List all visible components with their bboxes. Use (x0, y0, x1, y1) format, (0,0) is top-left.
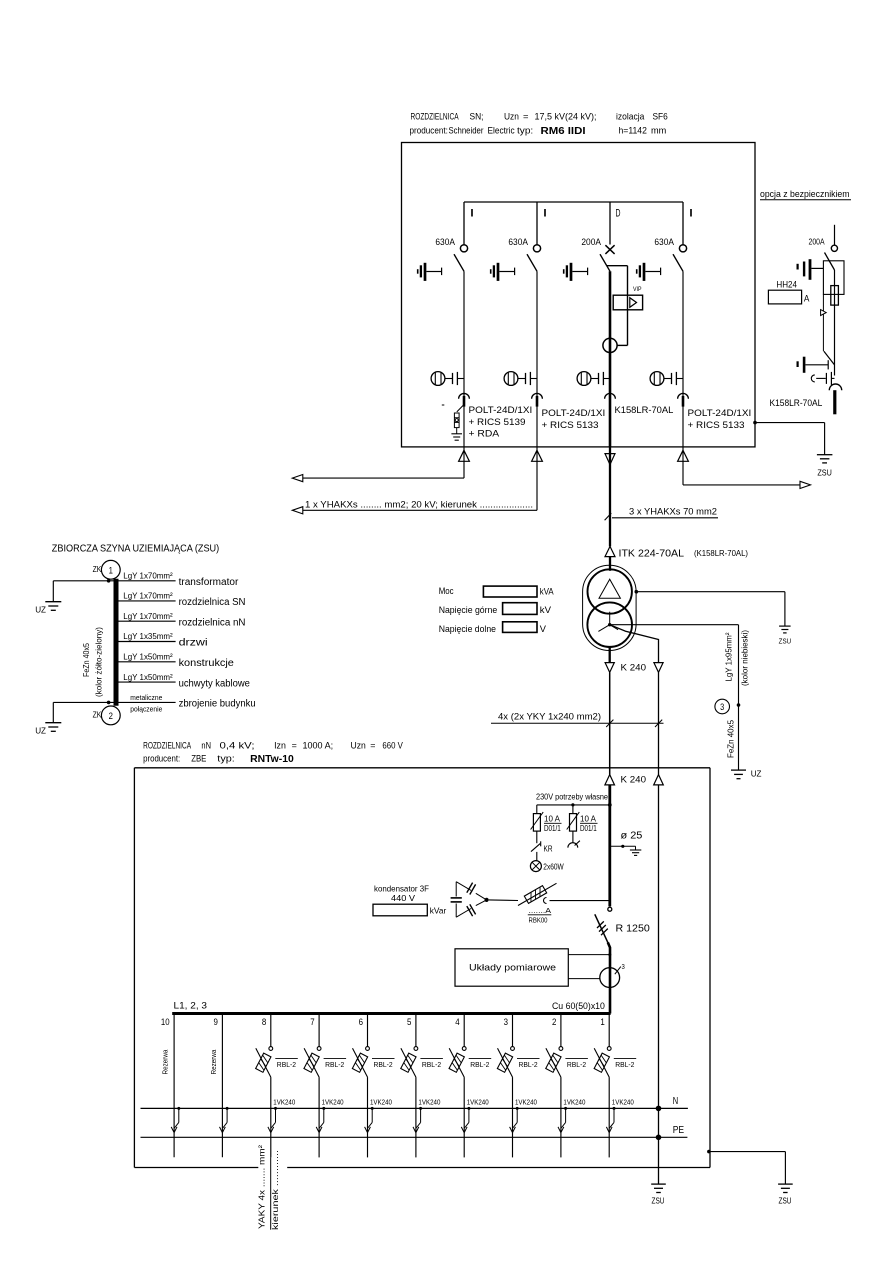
load-break switch blade feeder 1 (454, 254, 464, 271)
svg-text:.......A: .......A (529, 908, 552, 915)
svg-text:L1, 2, 3: L1, 2, 3 (174, 1001, 208, 1012)
svg-text:=: = (292, 740, 298, 751)
svg-text:0,4 kV;: 0,4 kV; (220, 740, 255, 751)
svg-text:ITK 224-70AL: ITK 224-70AL (619, 549, 685, 560)
cable arrowhead field 1 (606, 1127, 612, 1133)
svg-text:Uzn: Uzn (351, 740, 366, 751)
svg-text:(K158LR-70AL): (K158LR-70AL) (694, 549, 748, 558)
ground ZSU nN enclosure (778, 1184, 793, 1205)
wire SN feeder 2 drop (536, 202, 538, 245)
ground ZSU at transformer (779, 626, 792, 645)
svg-text:LgY 1x70mm²: LgY 1x70mm² (123, 571, 173, 581)
label feeder 3 cable head type (615, 405, 674, 415)
svg-text:630A: 630A (435, 237, 455, 248)
svg-text:+ RICS 5133: + RICS 5133 (688, 420, 745, 430)
svg-text:LgY 1x50mm²: LgY 1x50mm² (123, 652, 173, 662)
cable arrowhead field 4 (461, 1127, 467, 1133)
svg-text:LgY 1x50mm²: LgY 1x50mm² (123, 672, 173, 682)
neutral tap field 3 (513, 1107, 519, 1128)
cable stub feeder 2 (536, 396, 539, 407)
wire capacitor to fuse (489, 899, 518, 902)
svg-text:200A: 200A (809, 236, 825, 246)
ground UZ bottom-left (35, 723, 61, 736)
svg-text:kondensator 3F: kondensator 3F (374, 884, 429, 894)
svg-text:LgY 1x70mm²: LgY 1x70mm² (123, 591, 173, 601)
svg-text:3: 3 (622, 962, 625, 971)
wire field 8 cable going out (270, 1157, 272, 1229)
label option rating 200A (809, 236, 825, 246)
svg-text:ZSU: ZSU (817, 469, 832, 478)
svg-text:ZK: ZK (93, 711, 102, 720)
svg-text:UZ: UZ (751, 770, 762, 779)
wire feeder 3 vertical (609, 271, 612, 447)
svg-text:mm: mm (651, 126, 666, 137)
fuse-switch RBL-2 field 2 (546, 1015, 588, 1077)
load-break switch blade feeder 3 (600, 254, 610, 271)
cable arrowhead field 2 (558, 1127, 564, 1133)
svg-text:RBL-2: RBL-2 (567, 1060, 586, 1069)
cable stub feeder 1 (463, 396, 466, 407)
svg-text:(kolor niebieski): (kolor niebieski) (740, 630, 750, 686)
svg-text:metaliczne: metaliczne (130, 693, 162, 702)
fuse-switch RBL-2 field 7 (304, 1015, 346, 1077)
svg-text:630A: 630A (654, 237, 674, 248)
svg-text:=: = (370, 740, 376, 751)
ZSU branch 5 to konstrukcje (119, 652, 234, 670)
svg-text:4: 4 (455, 1017, 460, 1028)
svg-text:1: 1 (109, 565, 113, 576)
svg-text:440 V: 440 V (391, 893, 415, 903)
svg-text:ZK: ZK (93, 565, 102, 574)
ground ZSU option (817, 455, 833, 478)
terminal ZK 1 (93, 560, 121, 579)
svg-text:4x (2x YKY 1x240 mm2): 4x (2x YKY 1x240 mm2) (498, 711, 601, 721)
svg-text:Uzn: Uzn (504, 112, 519, 123)
label 1VK240 field 7 (322, 1099, 344, 1106)
transformer T1 HV winding (delta) (588, 569, 632, 613)
label 1VK240 field 3 (515, 1099, 537, 1106)
fuse F1 D01 aux (531, 805, 562, 843)
svg-text:1VK240: 1VK240 (563, 1099, 585, 1106)
earthing switch feeder 3 (564, 263, 588, 281)
voltage indicator lamp feeder 3 (577, 372, 598, 386)
svg-text:h=1142: h=1142 (619, 126, 647, 137)
ZSU branch 1 to transformator (119, 571, 240, 589)
svg-text:660 V: 660 V (382, 740, 403, 751)
svg-text:1 x YHAKXs ........ mm2; 20: 1 x YHAKXs ........ mm2; 20 kV; kierunek… (305, 500, 533, 510)
wire field 8 outgoing (270, 1077, 272, 1157)
wire SN feeder 3 drop (609, 202, 611, 245)
switch pivot contact feeder 4 (679, 245, 686, 252)
label feeder 4 'I' (689, 208, 694, 220)
label feeder 3 rating 200A (581, 237, 601, 248)
ground UZ right (731, 770, 762, 779)
svg-text:FeZn 40x5: FeZn 40x5 (81, 643, 91, 677)
svg-text:Electric: Electric (488, 126, 515, 137)
wire transformer tank earthing to ZSU (635, 590, 785, 626)
label Rezerwa field 9 (209, 1049, 218, 1075)
cable mark K240 up-triangles at nN box (605, 775, 663, 785)
label feeder 2 'I' (543, 208, 548, 220)
label field number 9 (214, 1017, 218, 1028)
label field number 1 (600, 1017, 604, 1028)
arrowhead feeder 1 (292, 475, 303, 482)
capacitor bank kVar box (373, 904, 446, 916)
svg-text:K 240: K 240 (621, 663, 647, 674)
wire main nN incomer thick (608, 785, 611, 906)
cable count tick incoming feeder (605, 513, 612, 520)
label 1VK240 field 8 (273, 1099, 295, 1106)
fixed contact hook RBK00 (544, 898, 547, 904)
svg-text:producent:: producent: (143, 753, 180, 764)
svg-text:kVar: kVar (430, 905, 447, 915)
wire field 5 outgoing (415, 1077, 417, 1157)
SN switchgear enclosure box (402, 143, 756, 447)
fuse carriage box option (823, 261, 844, 295)
svg-text:R 1250: R 1250 (616, 923, 651, 934)
wire transformer LV down (609, 646, 611, 663)
fuse-switch RBL-2 field 4 (449, 1015, 491, 1077)
ground UZ top-left (35, 602, 61, 615)
socket outlet symbol (568, 841, 580, 848)
terminal ZK 2 (93, 706, 121, 725)
wire feeder 2 vertical (536, 271, 538, 447)
cable termination arc feeder 2 (532, 393, 543, 398)
wire field 3 outgoing (512, 1077, 514, 1157)
wire field 2 outgoing (560, 1077, 562, 1157)
svg-text:Rezerwa: Rezerwa (161, 1049, 170, 1075)
label field number 10 (161, 1017, 170, 1028)
PE busbar (141, 1125, 688, 1138)
svg-text:Napięcie dolne: Napięcie dolne (439, 623, 496, 634)
svg-text:K 240: K 240 (621, 775, 647, 786)
svg-text:UZ: UZ (35, 726, 46, 735)
ZSU branch 4 to drzwi (119, 631, 208, 649)
label kolor niebieski vertical (740, 630, 750, 686)
fuse F2 D01 aux (567, 805, 598, 843)
neutral tap field 5 (416, 1107, 422, 1128)
svg-text:RBL-2: RBL-2 (325, 1060, 344, 1069)
label feeder 1 rating 630A (435, 237, 455, 248)
svg-text:(kolor żółto-zielony): (kolor żółto-zielony) (94, 627, 104, 697)
label field number 6 (359, 1017, 363, 1028)
wire nN neutral riser (658, 785, 660, 1184)
cable termination arc option (829, 384, 841, 390)
node 3 junction dot (737, 703, 741, 707)
interlock marker triangle (821, 310, 827, 316)
cable arrowhead field 7 (316, 1127, 322, 1133)
label 1VK240 field 1 (612, 1099, 634, 1106)
svg-text:HH24: HH24 (776, 280, 797, 290)
svg-text:YAKY 4x ....... mm²: YAKY 4x ....... mm² (257, 1145, 267, 1229)
label field number 7 (310, 1017, 314, 1028)
label Rezerwa field 10 (161, 1049, 170, 1075)
measuring circuits box (455, 949, 568, 986)
svg-text:RBL-2: RBL-2 (470, 1060, 489, 1069)
svg-text:1: 1 (600, 1017, 604, 1028)
label feeder 4 rating 630A (654, 237, 674, 248)
svg-text:konstrukcje: konstrukcje (179, 658, 234, 669)
svg-text:230V potrzeby własne: 230V potrzeby własne (536, 792, 608, 802)
VIP protection relay feeder 3 (607, 266, 643, 346)
wire feeder 1 outgoing arrow (296, 447, 464, 478)
svg-text:7: 7 (310, 1017, 314, 1028)
wire transformer neutral tap (610, 625, 659, 663)
svg-text:Rezerwa: Rezerwa (209, 1049, 218, 1075)
cable termination arc feeder 1 (459, 393, 470, 398)
switch-disconnector R 1250 (595, 907, 612, 1013)
svg-text:transformator: transformator (179, 577, 239, 588)
wire feeder 4 vertical (682, 271, 684, 447)
label FeZn 40x5 busbar vertical (81, 643, 91, 677)
svg-text:2: 2 (552, 1017, 556, 1028)
label feeder 1 'I' (470, 208, 475, 220)
cable arrowhead field 9 (220, 1127, 226, 1133)
svg-text:POLT-24D/1XI: POLT-24D/1XI (469, 405, 533, 415)
earthing pipe fi25 (610, 831, 643, 856)
svg-text:2: 2 (109, 711, 113, 722)
label ITK 224-70AL (619, 549, 749, 560)
svg-text:V: V (540, 623, 547, 634)
fuse HH24 option (831, 286, 839, 306)
wire nN box to ZSU ground (707, 1150, 785, 1184)
neutral tap field 10 (174, 1107, 180, 1128)
svg-text:ROZDZIELNICA: ROZDZIELNICA (411, 112, 460, 123)
node marker circle 3 (715, 699, 730, 714)
earthing switch option lower (798, 351, 835, 373)
fuse-switch RBL-2 field 1 (594, 1015, 636, 1077)
svg-text:N: N (673, 1096, 678, 1107)
svg-text:+ RICS 5133: + RICS 5133 (542, 420, 599, 430)
ZSU branch 2 to rozdzielnica SN (119, 591, 246, 609)
SN switchgear title (410, 112, 668, 138)
wire ZSU to UZ bottom (53, 701, 113, 723)
ground ZSU neutral (651, 1184, 666, 1205)
wire field 7 outgoing (318, 1077, 320, 1157)
svg-text:LgY 1x35mm²: LgY 1x35mm² (123, 631, 173, 641)
svg-text:Schneider: Schneider (449, 126, 484, 137)
SN busbar (464, 201, 683, 203)
svg-text:1VK240: 1VK240 (467, 1099, 489, 1106)
capacitive divider option (811, 372, 834, 385)
wire box to main line (568, 953, 611, 956)
fuse-switch cross contact feeder 3 (605, 245, 614, 254)
label LgY 1x95mm2 vertical (724, 632, 734, 681)
svg-text:5: 5 (407, 1017, 411, 1028)
label field number 4 (455, 1017, 460, 1028)
label YAKY cable vertical (257, 1145, 267, 1229)
label field number 5 (407, 1017, 411, 1028)
label field number 3 (504, 1017, 508, 1028)
wire feeder 4 outgoing arrow (683, 447, 800, 485)
wire 230V aux feed (537, 803, 612, 807)
svg-text:D01/1: D01/1 (544, 823, 561, 833)
svg-text:rozdzielnica SN: rozdzielnica SN (179, 597, 246, 608)
switch blade option (825, 253, 835, 271)
svg-text:A: A (804, 293, 810, 303)
svg-text:I: I (470, 208, 475, 220)
fuse-switch RBL-2 field 6 (352, 1015, 394, 1077)
load-break switch blade feeder 2 (527, 254, 537, 271)
arrowhead feeder 2 (292, 507, 303, 514)
ZSU earthing busbar (114, 579, 119, 706)
svg-text:K158LR-70AL: K158LR-70AL (615, 405, 674, 415)
wire SN box to ZSU ground (753, 421, 824, 455)
svg-text:połączenie: połączenie (130, 705, 162, 714)
label 4x (2x YKY 1x240 mm2) (498, 711, 601, 721)
label K 240 lower (621, 775, 647, 786)
svg-text:kierunek ............: kierunek ............ (270, 1150, 280, 1230)
wire field 6 outgoing (367, 1077, 369, 1157)
svg-text:K158LR-70AL: K158LR-70AL (770, 398, 823, 408)
svg-text:3 x YHAKXs 70 mm2: 3 x YHAKXs 70 mm2 (629, 507, 717, 517)
svg-text:17,5 kV(24 kV);: 17,5 kV(24 kV); (535, 112, 597, 123)
svg-text:1000 A;: 1000 A; (303, 740, 334, 751)
label K158LR-70AL option (770, 398, 823, 408)
cable arrowhead field 10 (171, 1127, 177, 1133)
neutral tap field 1 (610, 1107, 616, 1128)
svg-text:ROZDZIELNICA: ROZDZIELNICA (143, 740, 191, 751)
label kolor zolto-zielony vertical (94, 627, 104, 697)
svg-text:10: 10 (161, 1017, 170, 1028)
svg-text:RBL-2: RBL-2 (519, 1060, 538, 1069)
svg-text:rozdzielnica nN: rozdzielnica nN (179, 617, 246, 628)
wire reserve feeder 10 (173, 1015, 175, 1157)
svg-text:opcja z bezpiecznikiem: opcja z bezpiecznikiem (760, 189, 850, 200)
wire LV cables to nN switchgear (610, 672, 659, 774)
wire field 1 outgoing (608, 1077, 610, 1157)
svg-text:UZ: UZ (35, 605, 46, 614)
svg-text:kVA: kVA (540, 585, 554, 596)
wire fuse to main line (550, 900, 610, 902)
label kondensator 3F 440V (374, 884, 429, 904)
svg-text:1VK240: 1VK240 (612, 1099, 634, 1106)
svg-text:D01/1: D01/1 (580, 823, 597, 833)
cable arrowhead field 5 (413, 1127, 419, 1133)
current transformer feeder 3 (603, 338, 617, 352)
ZSU branch 7 to zbrojenie budynku (119, 693, 256, 714)
svg-text:Cu 60(50)x10: Cu 60(50)x10 (552, 1001, 605, 1012)
label 1VK240 field 2 (563, 1099, 585, 1106)
svg-text:3: 3 (504, 1017, 508, 1028)
svg-text:I: I (543, 208, 548, 220)
label FeZn 40x5 vertical (726, 720, 736, 758)
svg-text:FeZn 40x5: FeZn 40x5 (726, 720, 736, 758)
transformer T1 tank outline (583, 565, 637, 650)
neutral tap field 9 (223, 1107, 229, 1128)
wire ZSU to UZ top (53, 579, 113, 602)
capacitor bank delta symbol (451, 882, 487, 918)
wire SN feeder 1 drop (463, 202, 465, 245)
wire option feeder top (834, 225, 836, 246)
cable arrowhead field 8 (268, 1127, 274, 1133)
cable stub option thick (833, 390, 836, 414)
cable triangles at SN box bottom (459, 450, 689, 464)
label HH24 (776, 280, 797, 290)
svg-text:RBL-2: RBL-2 (615, 1060, 634, 1069)
svg-text:=: = (523, 112, 529, 123)
svg-text:8: 8 (262, 1017, 266, 1028)
svg-text:Moc: Moc (439, 585, 454, 596)
capacitive divider feeder 4 (672, 372, 684, 385)
earthing switch feeder 1 (418, 263, 442, 281)
wire SN feeder 4 drop (682, 202, 684, 245)
svg-text:+ RICS 5139: + RICS 5139 (469, 417, 526, 427)
svg-text:Układy pomiarowe: Układy pomiarowe (469, 963, 556, 973)
fuse-switch RBL-2 field 5 (401, 1015, 443, 1077)
svg-text:1VK240: 1VK240 (273, 1099, 295, 1106)
svg-text:ZSU: ZSU (652, 1197, 665, 1206)
svg-text:1VK240: 1VK240 (370, 1099, 392, 1106)
label field number 2 (552, 1017, 556, 1028)
svg-text:nN: nN (201, 740, 211, 751)
label feeder 1 cable head type (469, 405, 533, 439)
svg-text:3: 3 (720, 702, 724, 712)
transformer rating table (439, 585, 555, 634)
cable count line LV cables (491, 720, 664, 727)
main busbar Cu (172, 1012, 610, 1015)
cable termination arc feeder 3 (605, 393, 616, 398)
label R 1250 (616, 923, 651, 934)
svg-text:630A: 630A (508, 237, 528, 248)
current transformer nN 3x (600, 962, 625, 988)
earthing switch feeder 4 (637, 263, 661, 281)
cable mark K240 down-triangles (605, 663, 663, 673)
terminal PE to neutral riser (656, 1135, 662, 1141)
svg-text:izolacja: izolacja (616, 112, 645, 123)
svg-text:PE: PE (673, 1125, 685, 1136)
svg-text:RBL-2: RBL-2 (422, 1060, 441, 1069)
svg-text:D: D (616, 208, 621, 220)
svg-text:KR: KR (544, 844, 553, 854)
svg-text:typ:: typ: (517, 126, 533, 137)
svg-text:Napięcie górne: Napięcie górne (439, 604, 498, 615)
svg-text:SN;: SN; (470, 112, 484, 123)
neutral tap field 7 (319, 1107, 325, 1128)
label kierunek vertical (270, 1150, 280, 1230)
nN switchgear title (143, 740, 403, 765)
svg-text:uchwyty kablowe: uchwyty kablowe (179, 678, 250, 689)
svg-text:6: 6 (359, 1017, 363, 1028)
label feeder 2 cable head type (542, 408, 606, 430)
wire box to CT (568, 978, 600, 980)
earthing switch feeder 2 (491, 263, 515, 281)
svg-text:RBK00: RBK00 (529, 917, 548, 924)
svg-text:drzwi: drzwi (179, 638, 208, 649)
label opcja z bezpiecznikiem (760, 189, 851, 200)
svg-text:+ RDA: + RDA (469, 429, 501, 439)
wire option through fuse (834, 270, 836, 376)
label K 240 upper (621, 663, 647, 674)
svg-text:ZBIORCZA SZYNA UZIEMIAJĄCA (ZS: ZBIORCZA SZYNA UZIEMIAJĄCA (ZSU) (52, 543, 219, 554)
neutral tap field 4 (465, 1107, 471, 1128)
svg-text:RBL-2: RBL-2 (374, 1060, 393, 1069)
svg-text:2x60W: 2x60W (543, 861, 563, 871)
fuse-switch RBL-2 field 8 (256, 1015, 298, 1077)
svg-text:RNTw-10: RNTw-10 (250, 754, 294, 765)
svg-text:200A: 200A (581, 237, 601, 248)
svg-text:1VK240: 1VK240 (322, 1099, 344, 1106)
svg-text:1VK240: 1VK240 (418, 1099, 440, 1106)
svg-text:I: I (689, 208, 694, 220)
svg-text:ZBE: ZBE (191, 753, 206, 764)
ZSU branch 6 to uchwyty kablowe (119, 672, 250, 690)
surge arrester feeder 1 (442, 405, 464, 434)
cable termination arc feeder 4 (678, 393, 689, 398)
svg-text:producent:: producent: (410, 126, 448, 137)
switch pivot contact option (831, 245, 837, 251)
svg-text:LgY 1x95mm²: LgY 1x95mm² (724, 632, 734, 681)
